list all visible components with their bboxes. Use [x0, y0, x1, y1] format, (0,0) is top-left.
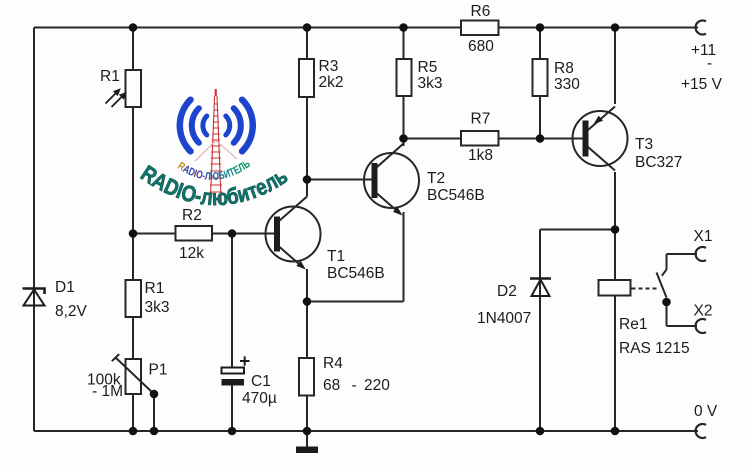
- svg-text:BC546B: BC546B: [327, 265, 385, 282]
- wire X1 fixed contact vertical: [666, 254, 668, 270]
- resistor R1 (3k3) body: [126, 280, 142, 317]
- wire D2 column: [539, 230, 541, 432]
- svg-text:680: 680: [468, 38, 494, 55]
- wire P1 wiper lead down: [153, 394, 155, 431]
- svg-text:3k3: 3k3: [418, 75, 443, 92]
- diode D2 triangle: [532, 280, 550, 297]
- svg-text:0 V: 0 V: [694, 403, 718, 420]
- transistor T2 base bar: [372, 163, 378, 198]
- node rail bottom R1 column: [129, 427, 138, 436]
- svg-text:R1: R1: [100, 68, 120, 85]
- node C1 top: [228, 229, 237, 238]
- terminal X1 arc: [696, 247, 706, 261]
- wire X2 vertical: [666, 302, 668, 326]
- wire R8 column: [539, 28, 541, 139]
- node T1 collector: [303, 175, 312, 184]
- wire T1 collector to T2 base row: [307, 179, 372, 181]
- capacitor C1 plus sign: [240, 356, 250, 365]
- svg-text:8,2V: 8,2V: [55, 303, 88, 320]
- resistor R2 body: [176, 226, 213, 241]
- svg-text:470µ: 470µ: [242, 390, 277, 407]
- transistor T1 circle: [266, 207, 321, 262]
- node T3 collector/D2: [611, 225, 620, 234]
- wire X1 row: [667, 253, 698, 255]
- zener diode D1 triangle: [24, 290, 45, 306]
- logo radio tower: [210, 89, 223, 202]
- ground symbol: [296, 447, 318, 454]
- resistor R1 photo arrow 1: [106, 88, 121, 103]
- node dots: [129, 23, 671, 435]
- svg-text:R3: R3: [319, 58, 339, 75]
- zener diode D1 cathode bar: [23, 289, 45, 295]
- svg-text:C1: C1: [251, 373, 271, 390]
- transistor T3 emitter line with arrow (PNP): [588, 107, 615, 131]
- wire top supply rail: [34, 27, 698, 29]
- transistor T1 emitter line with arrow: [279, 247, 303, 268]
- logo radio waves left: [180, 100, 207, 152]
- node R8/R7/T3 base: [536, 134, 545, 143]
- svg-text:X1: X1: [694, 228, 713, 245]
- transistor T1 base bar: [274, 217, 280, 252]
- node rail bottom relay: [611, 427, 620, 436]
- svg-text:T3: T3: [635, 136, 653, 153]
- node A divider/R2: [129, 229, 138, 238]
- svg-text:+15 V: +15 V: [681, 76, 723, 93]
- wire R5/T2 collector column: [403, 28, 405, 147]
- wire C1 top lead: [231, 234, 233, 369]
- wire X2 row: [667, 325, 698, 327]
- svg-text:R5: R5: [418, 59, 438, 76]
- node rail bottom D2: [536, 427, 545, 436]
- transistor T3 circle: [573, 111, 628, 166]
- resistor R7 body: [461, 131, 499, 146]
- svg-text:X2: X2: [694, 303, 713, 320]
- svg-text:1N4007: 1N4007: [477, 310, 531, 327]
- node P1 wiper: [150, 390, 159, 399]
- svg-text:- 1M: - 1M: [92, 383, 123, 400]
- node rail T3 emitter: [611, 23, 620, 32]
- svg-text:RAS 1215: RAS 1215: [619, 340, 690, 357]
- node rail R8: [536, 23, 545, 32]
- wire T3 collector / relay column: [614, 172, 616, 431]
- transistor T1 collector line: [279, 197, 307, 222]
- transistor T3 collector line: [588, 147, 615, 171]
- resistor R5 body: [397, 59, 412, 96]
- wire T3 emitter vertical: [614, 28, 616, 105]
- transistor T2 circle: [364, 153, 419, 208]
- svg-text:12k: 12k: [179, 245, 204, 262]
- wire D2 top row to T3 collector: [540, 229, 615, 231]
- svg-text:1k8: 1k8: [468, 147, 493, 164]
- svg-text:R7: R7: [471, 111, 491, 128]
- svg-text:-: -: [352, 377, 357, 394]
- node rail bottom wiper: [150, 427, 159, 436]
- wire switch lever: [657, 273, 667, 298]
- wire dashed relay actuator link: [632, 288, 658, 290]
- terminal X2 arc: [696, 319, 706, 333]
- logo radio waves right: [226, 100, 253, 152]
- svg-text:BC546B: BC546B: [427, 187, 485, 204]
- wire R3 column: [306, 28, 308, 197]
- terminal +V arc: [696, 20, 706, 34]
- wire T2 emitter down: [403, 212, 405, 302]
- svg-text:R8: R8: [554, 60, 574, 77]
- svg-text:R1: R1: [145, 280, 165, 297]
- wire ground stem: [306, 431, 308, 447]
- svg-text:T2: T2: [427, 170, 445, 187]
- svg-text:BC327: BC327: [635, 154, 682, 171]
- svg-text:330: 330: [554, 76, 580, 93]
- svg-text:-: -: [707, 55, 712, 72]
- potentiometer P1 wiper end bar: [112, 354, 119, 361]
- svg-text:D1: D1: [55, 279, 75, 296]
- resistor R4 body: [299, 358, 314, 396]
- resistor R6 body: [461, 21, 499, 36]
- transistor T2 collector line: [377, 144, 404, 168]
- svg-text:2k2: 2k2: [319, 74, 344, 91]
- wire C1 bottom lead: [231, 385, 233, 431]
- potentiometer P1 body: [126, 359, 142, 394]
- wire left rail: [33, 28, 35, 432]
- diode D2 cathode bar: [530, 277, 551, 280]
- node rail R3: [303, 23, 312, 32]
- logo tower guy wires: [195, 141, 237, 161]
- capacitor C1 bottom plate: [222, 379, 245, 386]
- svg-text:3k3: 3k3: [145, 299, 170, 316]
- node switch common: [662, 298, 671, 307]
- node emitters junction: [303, 297, 312, 306]
- svg-text:T1: T1: [327, 248, 345, 265]
- svg-text:R4: R4: [323, 355, 343, 372]
- node rail R5: [399, 23, 408, 32]
- node rail bottom R4/ground: [303, 427, 312, 436]
- wire R7 row to T3 base: [404, 138, 583, 140]
- relay Re1 coil box: [599, 280, 631, 296]
- transistor T3 base bar: [583, 121, 589, 157]
- resistor R3 body: [299, 59, 314, 97]
- capacitor C1 top plate: [222, 368, 245, 374]
- svg-text:P1: P1: [149, 362, 168, 379]
- wire X1 contact hook: [662, 270, 667, 276]
- svg-text:220: 220: [364, 377, 390, 394]
- node rail R1: [129, 23, 138, 32]
- wire R2 row to T1 base: [133, 233, 275, 235]
- wire R1/P1 column: [132, 28, 134, 432]
- node rail bottom C1: [228, 427, 237, 436]
- node T2 collector/R7: [399, 134, 408, 143]
- potentiometer P1 wiper arm: [116, 358, 155, 395]
- terminal 0V arc: [696, 424, 706, 438]
- svg-text:R6: R6: [471, 3, 491, 20]
- wire emitter link row: [307, 301, 404, 303]
- svg-text:D2: D2: [497, 283, 517, 300]
- resistor R1 photo arrow 2: [112, 92, 127, 107]
- svg-text:68: 68: [323, 377, 340, 394]
- resistor R1 photoresistor body: [126, 70, 142, 107]
- resistor R8 body: [533, 59, 548, 96]
- wire T1 emitter down to R4: [306, 269, 308, 431]
- svg-text:R2: R2: [182, 207, 202, 224]
- svg-text:Re1: Re1: [619, 316, 647, 333]
- transistor T2 emitter line with arrow: [377, 193, 401, 214]
- svg-text:+11: +11: [691, 42, 716, 59]
- wire bottom 0V rail: [34, 430, 698, 432]
